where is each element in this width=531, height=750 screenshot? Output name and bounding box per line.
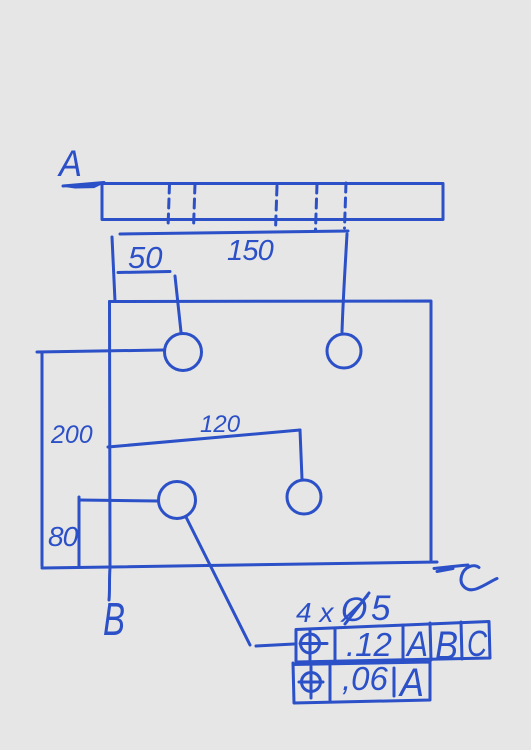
svg-text:.12: .12 xyxy=(346,626,392,663)
side view plate outline xyxy=(102,184,443,220)
FCF row 1 box xyxy=(296,622,490,663)
svg-text:4 x: 4 x xyxy=(296,597,334,628)
front view plate left edge xyxy=(108,302,112,568)
datum label C tick xyxy=(434,565,468,572)
hidden hole line 1 xyxy=(168,184,170,228)
extension line 150 to top-right hole xyxy=(342,234,347,332)
FCF row 1 divider 3 xyxy=(430,623,431,660)
dimension line 150 xyxy=(120,231,348,234)
dimension line 120 xyxy=(108,430,300,447)
FCF row 1 divider 4 xyxy=(461,622,462,659)
dimension line 200 xyxy=(41,353,44,566)
datum label B stem xyxy=(109,568,110,600)
hidden hole line 2 xyxy=(194,184,196,228)
position symbol row 1 xyxy=(301,634,320,653)
svg-text:80: 80 xyxy=(48,521,79,552)
front view plate bottom edge / dimension baseline xyxy=(42,562,437,568)
hidden hole line 4 xyxy=(316,184,318,230)
extension line left of 150 xyxy=(112,237,115,301)
svg-text:C: C xyxy=(467,623,488,664)
front view plate outline xyxy=(110,301,432,560)
svg-text:120: 120 xyxy=(200,411,241,438)
extension line 120 to bottom-right hole xyxy=(300,430,302,479)
position symbol row 2 xyxy=(302,673,321,692)
svg-text:150: 150 xyxy=(227,235,274,267)
svg-text:A: A xyxy=(405,625,428,664)
leader line from bottom-left hole to FCF xyxy=(186,517,250,645)
hole top-right xyxy=(327,334,361,368)
datum label C xyxy=(461,566,497,590)
svg-text:B: B xyxy=(103,593,125,645)
FCF row 1 divider 2 xyxy=(402,625,405,659)
hole top-left xyxy=(165,334,202,371)
extension line 50 to top-left hole xyxy=(175,276,181,332)
hidden hole line 5 xyxy=(345,183,347,228)
extension line 80 to bottom-left hole xyxy=(79,500,158,501)
hole bottom-right xyxy=(287,480,321,514)
FCF row 2 divider 1 xyxy=(329,664,332,700)
svg-text:,06: ,06 xyxy=(342,660,389,697)
svg-text:200: 200 xyxy=(50,421,93,449)
dimension line 80 xyxy=(78,497,81,567)
FCF row 1 divider 1 xyxy=(334,629,337,661)
FCF row 2 box xyxy=(293,661,430,703)
datum A leader arrow xyxy=(63,183,104,187)
hole bottom-left xyxy=(159,482,196,519)
dimension line 50 (underline) xyxy=(118,272,170,273)
svg-text:B: B xyxy=(435,624,458,668)
FCF row 2 divider 2 xyxy=(393,668,396,696)
svg-text:5: 5 xyxy=(371,589,391,628)
hidden hole line 3 xyxy=(276,186,278,230)
svg-text:A: A xyxy=(57,143,82,184)
extension line 200 to top-left hole xyxy=(37,350,163,352)
svg-text:A: A xyxy=(398,661,424,705)
svg-text:50: 50 xyxy=(128,240,162,275)
